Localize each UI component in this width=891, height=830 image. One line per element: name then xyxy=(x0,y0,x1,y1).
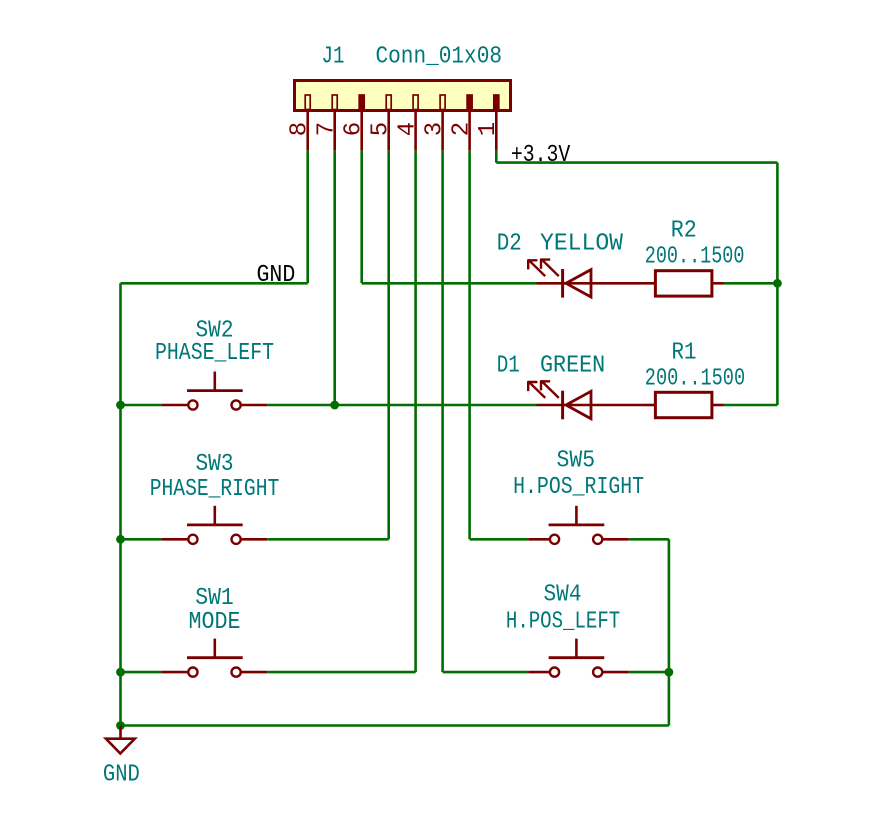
wire R1 to right rail xyxy=(724,404,778,407)
switch SW3 xyxy=(162,506,267,544)
wire GND row horizontal xyxy=(121,282,308,285)
ground xyxy=(106,726,135,754)
SW5 value label H.POS_RIGHT xyxy=(513,474,644,501)
pin 4 slot xyxy=(413,95,418,110)
svg-text:PHASE_RIGHT: PHASE_RIGHT xyxy=(150,476,280,503)
junction right rail / D2 row xyxy=(773,279,782,288)
pin 8 xyxy=(287,111,314,151)
wire right rail xyxy=(776,163,779,405)
SW2 value label PHASE_LEFT xyxy=(155,340,274,367)
node GND label xyxy=(257,262,296,289)
svg-text:SW3: SW3 xyxy=(196,451,234,478)
wire pin8 down to GND row xyxy=(306,151,309,284)
GND power label xyxy=(103,761,140,788)
junction left rail / SW3 row xyxy=(116,535,125,544)
D2 reference label xyxy=(497,230,522,257)
junction left rail / SW2 row xyxy=(116,401,125,410)
wire pin3 to SW4 left xyxy=(443,671,529,674)
wire SW3 row left xyxy=(121,538,163,541)
SW2 reference label xyxy=(196,317,234,344)
connector J1 xyxy=(295,81,511,111)
svg-text:4: 4 xyxy=(394,122,421,136)
switch SW2 xyxy=(162,372,267,410)
resistor R1 xyxy=(644,392,724,417)
wire SW2 row left xyxy=(121,404,163,407)
node +3.3V label xyxy=(511,142,571,169)
svg-text:+3.3V: +3.3V xyxy=(511,142,571,169)
pin 5 xyxy=(368,111,395,151)
R1 reference label xyxy=(672,340,697,367)
R2 reference label xyxy=(671,218,697,245)
J1 reference label xyxy=(322,44,345,71)
R1 value label 200..1500 xyxy=(645,366,745,393)
pin 6 xyxy=(341,111,368,151)
wire SW3 right to pin5 column xyxy=(267,538,389,541)
wire SW4 right to right column xyxy=(629,671,669,674)
D2 value label YELLOW xyxy=(540,230,624,257)
R2 value label 200..1500 xyxy=(645,244,745,271)
wire pin1 down to +3.3V row xyxy=(495,151,498,163)
LED D2 xyxy=(528,259,645,298)
wire SW2 right to D1 row xyxy=(267,404,536,407)
wire bottom row xyxy=(121,724,669,727)
junction pin7 / SW2 row xyxy=(330,401,339,410)
wire SW5 right to right column xyxy=(629,538,669,541)
switch SW4 xyxy=(528,639,628,677)
SW3 value label PHASE_RIGHT xyxy=(150,476,280,503)
SW1 value label MODE xyxy=(189,609,241,636)
junction right column / SW4 row xyxy=(665,668,674,677)
LED D1 xyxy=(528,381,645,420)
wire SW1 row left xyxy=(121,671,163,674)
switch SW5 xyxy=(528,506,628,544)
svg-text:SW4: SW4 xyxy=(544,582,582,609)
wire pin5 down to SW3 row xyxy=(387,151,390,540)
pin 7 xyxy=(314,111,341,151)
pin 3 slot xyxy=(440,95,445,110)
J1 value label Conn_01x08 xyxy=(376,44,503,71)
svg-text:5: 5 xyxy=(368,122,395,136)
pin 7 slot xyxy=(332,95,337,110)
junction left rail / SW1 row xyxy=(116,668,125,677)
svg-text:R2: R2 xyxy=(671,218,697,245)
svg-text:7: 7 xyxy=(314,122,341,136)
svg-text:SW5: SW5 xyxy=(557,447,596,474)
svg-text:J1: J1 xyxy=(322,44,345,71)
svg-text:GREEN: GREEN xyxy=(540,352,605,379)
svg-text:H.POS_LEFT: H.POS_LEFT xyxy=(506,608,620,635)
svg-text:YELLOW: YELLOW xyxy=(540,230,624,257)
wire pin6 to D2 anode xyxy=(362,282,537,285)
svg-text:R1: R1 xyxy=(672,340,697,367)
svg-text:GND: GND xyxy=(257,262,296,289)
pin 5 slot xyxy=(386,95,391,110)
wire pin3 down to SW4 row xyxy=(441,151,444,672)
SW4 reference label xyxy=(544,582,582,609)
svg-text:200..1500: 200..1500 xyxy=(645,366,745,393)
resistor R2 xyxy=(644,271,724,296)
svg-text:D2: D2 xyxy=(497,230,522,257)
wire pin4 down to SW1 row xyxy=(414,151,417,672)
pin 2 xyxy=(448,111,475,151)
pin 2 slot xyxy=(467,95,472,110)
switch SW1 xyxy=(162,639,267,677)
wire pin2 to SW5 left xyxy=(470,538,529,541)
svg-text:200..1500: 200..1500 xyxy=(645,244,745,271)
svg-text:3: 3 xyxy=(421,122,448,136)
wire pin2 down to SW5 row xyxy=(468,151,471,540)
wire SW1 right to pin4 column xyxy=(267,671,415,674)
wire pin7 down to SW2 row xyxy=(333,151,336,405)
SW1 reference label xyxy=(195,585,234,612)
junction left rail / bottom row xyxy=(116,721,125,730)
D1 reference label xyxy=(497,352,520,379)
svg-text:GND: GND xyxy=(103,761,140,788)
svg-text:Conn_01x08: Conn_01x08 xyxy=(376,44,503,71)
pin 3 xyxy=(421,111,448,151)
svg-text:D1: D1 xyxy=(497,352,520,379)
svg-text:1: 1 xyxy=(475,122,502,136)
pin 1 slot xyxy=(494,95,499,110)
SW4 value label H.POS_LEFT xyxy=(506,608,620,635)
svg-text:8: 8 xyxy=(287,122,314,136)
svg-text:H.POS_RIGHT: H.POS_RIGHT xyxy=(513,474,644,501)
pin 1 xyxy=(475,111,502,151)
pin 6 slot xyxy=(359,95,364,110)
svg-text:2: 2 xyxy=(448,122,475,136)
wire R2 to right rail xyxy=(724,282,778,285)
SW3 reference label xyxy=(196,451,234,478)
wire left rail xyxy=(119,283,122,725)
svg-text:MODE: MODE xyxy=(189,609,241,636)
wire pin6 down to D2 row xyxy=(360,151,363,284)
wire right column SW5 to bottom xyxy=(668,539,671,725)
pin 8 slot xyxy=(305,95,310,110)
svg-text:6: 6 xyxy=(341,122,368,136)
svg-text:PHASE_LEFT: PHASE_LEFT xyxy=(155,340,274,367)
wire +3.3V row horizontal xyxy=(496,161,777,164)
SW5 reference label xyxy=(557,447,596,474)
pin 4 xyxy=(394,111,421,151)
D1 value label GREEN xyxy=(540,352,605,379)
